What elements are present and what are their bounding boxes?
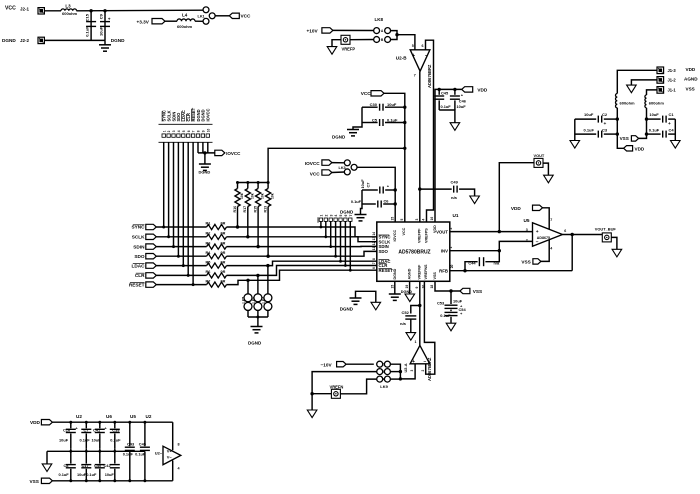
svg-text:IOVCC: IOVCC bbox=[305, 161, 320, 166]
svg-text:RFB: RFB bbox=[439, 268, 448, 273]
svg-text:600ohm: 600ohm bbox=[62, 11, 78, 16]
svg-text:C1: C1 bbox=[669, 112, 675, 117]
svg-text:20: 20 bbox=[450, 264, 454, 268]
svg-text:3: 3 bbox=[329, 215, 333, 217]
svg-text:3: 3 bbox=[410, 370, 414, 372]
svg-text:DGND: DGND bbox=[401, 290, 412, 294]
svg-text:LK1: LK1 bbox=[198, 15, 205, 19]
svg-text:L3: L3 bbox=[65, 4, 71, 9]
svg-text:SDIN: SDIN bbox=[133, 244, 145, 249]
svg-text:+10V: +10V bbox=[307, 28, 319, 33]
svg-text:10uF: 10uF bbox=[360, 179, 365, 189]
svg-text:0R: 0R bbox=[221, 270, 226, 274]
svg-text:11: 11 bbox=[372, 247, 376, 251]
svg-text:J2-1: J2-1 bbox=[20, 7, 30, 12]
svg-text:4: 4 bbox=[334, 215, 338, 217]
svg-text:C39: C39 bbox=[112, 427, 120, 432]
svg-text:15: 15 bbox=[391, 217, 395, 221]
svg-text:VOUT: VOUT bbox=[436, 229, 448, 234]
svg-text:DGND: DGND bbox=[2, 38, 16, 43]
svg-text:0.1uF: 0.1uF bbox=[584, 127, 595, 132]
svg-text:8: 8 bbox=[197, 130, 201, 132]
svg-text:C17: C17 bbox=[82, 463, 89, 468]
svg-text:VCC: VCC bbox=[5, 6, 16, 12]
svg-text:1: 1 bbox=[320, 215, 324, 217]
svg-text:U2: U2 bbox=[76, 414, 82, 419]
svg-text:R7: R7 bbox=[206, 279, 211, 283]
svg-text:C8: C8 bbox=[64, 463, 70, 468]
svg-text:10uF: 10uF bbox=[92, 437, 102, 442]
svg-text:0R: 0R bbox=[221, 260, 226, 264]
svg-text:13: 13 bbox=[372, 237, 376, 241]
svg-text:600ohm: 600ohm bbox=[620, 100, 636, 105]
svg-text:VSS: VSS bbox=[686, 86, 695, 91]
svg-text:10k: 10k bbox=[250, 193, 254, 199]
svg-text:C7: C7 bbox=[366, 183, 371, 188]
svg-text:C53: C53 bbox=[437, 300, 445, 305]
svg-text:SDO: SDO bbox=[379, 249, 389, 254]
svg-text:C30: C30 bbox=[370, 102, 378, 107]
svg-text:3: 3 bbox=[172, 130, 176, 132]
svg-text:VDD: VDD bbox=[511, 206, 522, 211]
svg-text:4: 4 bbox=[177, 130, 181, 132]
svg-text:7: 7 bbox=[414, 74, 416, 78]
svg-text:VSS: VSS bbox=[473, 289, 482, 294]
svg-text:LK9: LK9 bbox=[380, 384, 388, 389]
svg-text:0R: 0R bbox=[221, 232, 226, 236]
svg-text:3: 3 bbox=[415, 219, 419, 221]
svg-text:4: 4 bbox=[422, 219, 426, 221]
svg-text:5: 5 bbox=[339, 215, 343, 217]
svg-text:+: + bbox=[412, 53, 415, 59]
svg-text:0.1uF: 0.1uF bbox=[80, 437, 91, 442]
svg-text:5: 5 bbox=[412, 44, 414, 48]
svg-text:VCC: VCC bbox=[361, 91, 372, 96]
svg-text:8: 8 bbox=[178, 442, 180, 446]
svg-text:0.1uF: 0.1uF bbox=[123, 452, 134, 457]
svg-text:DGND: DGND bbox=[111, 38, 125, 43]
svg-text:−: − bbox=[536, 240, 539, 245]
svg-text:14: 14 bbox=[372, 232, 376, 236]
svg-text:C5: C5 bbox=[372, 117, 378, 122]
svg-text:C44: C44 bbox=[468, 261, 476, 266]
svg-text:15: 15 bbox=[391, 285, 395, 289]
svg-text:SYNC: SYNC bbox=[131, 225, 145, 230]
svg-text:U2-A: U2-A bbox=[403, 363, 408, 372]
svg-text:0.1uF: 0.1uF bbox=[110, 437, 121, 442]
svg-text:VDD: VDD bbox=[635, 146, 645, 151]
svg-text:4: 4 bbox=[550, 247, 552, 251]
svg-text:IOVCC: IOVCC bbox=[226, 151, 241, 156]
svg-text:DGND: DGND bbox=[332, 134, 346, 139]
svg-text:VCC: VCC bbox=[310, 172, 321, 177]
svg-text:0.1uF: 0.1uF bbox=[440, 313, 451, 318]
svg-text:7: 7 bbox=[349, 215, 353, 217]
svg-text:C4: C4 bbox=[669, 127, 675, 132]
svg-text:6: 6 bbox=[564, 229, 566, 233]
svg-text:10uF: 10uF bbox=[59, 437, 69, 442]
svg-text:V−: V− bbox=[167, 454, 173, 459]
svg-text:VDD: VDD bbox=[477, 88, 488, 93]
svg-text:C54: C54 bbox=[459, 307, 467, 312]
svg-text:R13: R13 bbox=[264, 206, 268, 213]
svg-text:LK5: LK5 bbox=[242, 297, 246, 304]
svg-text:LK4: LK4 bbox=[262, 297, 266, 304]
svg-text:19: 19 bbox=[405, 285, 409, 289]
svg-text:+: + bbox=[108, 18, 111, 23]
svg-text:2: 2 bbox=[449, 228, 453, 230]
svg-text:7: 7 bbox=[192, 130, 196, 132]
svg-text:U2−: U2− bbox=[155, 451, 163, 456]
svg-text:AD5780BRUZ: AD5780BRUZ bbox=[398, 250, 430, 256]
svg-text:VREFPF: VREFPF bbox=[418, 228, 422, 243]
svg-text:0R: 0R bbox=[221, 251, 226, 255]
svg-text:10uF: 10uF bbox=[387, 102, 397, 107]
svg-text:R3: R3 bbox=[206, 241, 211, 245]
svg-text:VREFP: VREFP bbox=[342, 47, 356, 52]
svg-text:VSS: VSS bbox=[521, 259, 530, 264]
svg-text:AGND: AGND bbox=[407, 268, 411, 279]
svg-text:18: 18 bbox=[430, 285, 434, 289]
svg-text:LK6: LK6 bbox=[252, 297, 256, 304]
svg-text:10uF: 10uF bbox=[453, 299, 463, 304]
svg-text:C6: C6 bbox=[384, 199, 390, 204]
svg-text:n/a: n/a bbox=[494, 260, 500, 265]
svg-text:LK8: LK8 bbox=[375, 17, 384, 22]
svg-text:C41: C41 bbox=[93, 427, 101, 432]
svg-text:DGND: DGND bbox=[340, 306, 354, 311]
svg-text:U1: U1 bbox=[453, 213, 459, 218]
svg-text:U5: U5 bbox=[130, 414, 136, 419]
svg-text:R6: R6 bbox=[206, 270, 211, 274]
svg-text:R16: R16 bbox=[233, 206, 237, 213]
svg-text:DGND: DGND bbox=[393, 268, 397, 279]
svg-text:VSS: VSS bbox=[433, 272, 437, 280]
svg-text:U6: U6 bbox=[106, 414, 112, 419]
svg-text:LK3: LK3 bbox=[339, 166, 346, 170]
svg-text:C45: C45 bbox=[441, 91, 449, 96]
svg-text:12: 12 bbox=[372, 241, 376, 245]
svg-text:0R: 0R bbox=[221, 222, 226, 226]
svg-text:2: 2 bbox=[324, 215, 328, 217]
svg-text:2: 2 bbox=[167, 130, 171, 132]
svg-text:R2: R2 bbox=[206, 232, 211, 236]
svg-text:9: 9 bbox=[202, 130, 206, 132]
svg-text:SCLK: SCLK bbox=[132, 235, 145, 240]
svg-text:1: 1 bbox=[415, 340, 417, 344]
svg-text:5: 5 bbox=[182, 130, 186, 132]
svg-text:0.1uF: 0.1uF bbox=[59, 472, 70, 477]
svg-text:2: 2 bbox=[421, 370, 425, 372]
svg-text:C40: C40 bbox=[94, 463, 101, 468]
svg-text:6: 6 bbox=[187, 130, 191, 132]
svg-text:10uF: 10uF bbox=[99, 26, 104, 36]
svg-text:VOUT: VOUT bbox=[534, 153, 545, 158]
svg-text:SDO: SDO bbox=[134, 254, 145, 259]
svg-text:6: 6 bbox=[344, 215, 348, 217]
svg-text:J1-2: J1-2 bbox=[668, 78, 677, 83]
svg-text:10k: 10k bbox=[271, 193, 275, 199]
svg-text:AGND: AGND bbox=[684, 77, 698, 82]
svg-text:C45: C45 bbox=[139, 441, 147, 446]
svg-text:VSS: VSS bbox=[620, 136, 629, 141]
svg-text:LDAC: LDAC bbox=[131, 263, 145, 268]
svg-text:VSS: VSS bbox=[30, 479, 39, 484]
svg-text:10k: 10k bbox=[261, 193, 265, 199]
svg-text:0.1uF: 0.1uF bbox=[86, 472, 97, 477]
svg-text:IOVCC: IOVCC bbox=[393, 229, 397, 241]
svg-text:0R: 0R bbox=[221, 241, 226, 245]
svg-text:INV: INV bbox=[441, 248, 448, 253]
svg-text:0.1uF: 0.1uF bbox=[649, 127, 660, 132]
svg-text:10: 10 bbox=[206, 129, 210, 133]
svg-text:10uF: 10uF bbox=[649, 112, 659, 117]
svg-text:C2: C2 bbox=[602, 112, 608, 117]
svg-text:VCC: VCC bbox=[241, 14, 252, 19]
svg-text:−: − bbox=[425, 53, 428, 59]
svg-text:V+: V+ bbox=[167, 449, 173, 454]
svg-text:RESET: RESET bbox=[129, 282, 145, 287]
svg-text:10uF: 10uF bbox=[584, 112, 594, 117]
svg-text:1: 1 bbox=[162, 130, 166, 132]
svg-text:0.1uF: 0.1uF bbox=[135, 452, 146, 457]
svg-text:C52: C52 bbox=[402, 310, 410, 315]
svg-text:0.1uF: 0.1uF bbox=[441, 104, 452, 109]
svg-text:−10V: −10V bbox=[321, 362, 333, 367]
svg-text:C49: C49 bbox=[451, 179, 459, 184]
svg-text:DGND: DGND bbox=[340, 210, 354, 215]
svg-text:IOVCC: IOVCC bbox=[206, 108, 211, 121]
svg-text:9: 9 bbox=[415, 287, 419, 289]
svg-text:C42: C42 bbox=[104, 463, 112, 468]
svg-text:CLR: CLR bbox=[135, 273, 145, 278]
svg-text:VOUT_BUF: VOUT_BUF bbox=[595, 227, 617, 232]
svg-text:VDD: VDD bbox=[686, 67, 696, 72]
svg-text:R17: R17 bbox=[243, 206, 247, 213]
svg-text:DGND: DGND bbox=[199, 170, 211, 175]
svg-text:0.1uF: 0.1uF bbox=[387, 117, 398, 122]
svg-text:10uF: 10uF bbox=[105, 472, 115, 477]
svg-text:R1: R1 bbox=[206, 222, 211, 226]
svg-text:10k: 10k bbox=[240, 193, 244, 199]
svg-text:0R: 0R bbox=[221, 279, 226, 283]
svg-text:J1-1: J1-1 bbox=[668, 88, 677, 93]
svg-text:16: 16 bbox=[430, 217, 434, 221]
svg-text:U5: U5 bbox=[524, 218, 530, 223]
svg-text:J2-2: J2-2 bbox=[20, 38, 30, 43]
svg-text:3: 3 bbox=[526, 228, 528, 232]
svg-text:DGND: DGND bbox=[248, 341, 262, 346]
svg-text:VREFNF: VREFNF bbox=[418, 264, 422, 279]
svg-text:VCC: VCC bbox=[402, 227, 406, 235]
svg-text:AD8676BRZ: AD8676BRZ bbox=[427, 357, 432, 381]
svg-text:VREFPS: VREFPS bbox=[424, 228, 428, 243]
svg-text:7: 7 bbox=[550, 218, 552, 222]
svg-text:VDD: VDD bbox=[30, 420, 41, 425]
svg-text:+: + bbox=[536, 230, 539, 235]
svg-text:R15: R15 bbox=[254, 206, 258, 213]
svg-text:C7: C7 bbox=[84, 427, 89, 432]
svg-text:6: 6 bbox=[422, 44, 424, 48]
svg-text:n/a: n/a bbox=[400, 321, 407, 326]
svg-text:10uF: 10uF bbox=[457, 104, 467, 109]
svg-text:L4: L4 bbox=[182, 13, 188, 18]
svg-text:n/a: n/a bbox=[451, 195, 458, 200]
svg-text:VREFNS: VREFNS bbox=[424, 264, 428, 279]
svg-text:+: + bbox=[668, 122, 671, 127]
svg-text:+: + bbox=[604, 122, 607, 127]
svg-text:8: 8 bbox=[372, 258, 376, 260]
svg-text:6: 6 bbox=[372, 267, 376, 269]
svg-text:600ohm: 600ohm bbox=[649, 100, 665, 105]
svg-text:U2: U2 bbox=[146, 414, 152, 419]
svg-text:1: 1 bbox=[449, 247, 453, 249]
svg-text:C16: C16 bbox=[63, 427, 71, 432]
svg-text:600ohm: 600ohm bbox=[177, 24, 193, 29]
svg-text:0.1uF: 0.1uF bbox=[351, 199, 362, 204]
svg-text:C15: C15 bbox=[85, 13, 90, 21]
svg-text:U2-B: U2-B bbox=[396, 55, 407, 60]
svg-text:C3: C3 bbox=[602, 127, 608, 132]
svg-text:R5: R5 bbox=[206, 260, 211, 264]
svg-text:VREFN: VREFN bbox=[330, 384, 344, 389]
svg-text:0.1uF: 0.1uF bbox=[85, 26, 90, 37]
svg-text:C9: C9 bbox=[99, 13, 104, 19]
svg-text:2: 2 bbox=[526, 239, 528, 243]
svg-text:AD8676BRZ: AD8676BRZ bbox=[427, 64, 432, 88]
svg-text:C43: C43 bbox=[127, 441, 135, 446]
svg-text:5: 5 bbox=[400, 219, 404, 221]
svg-text:AD8675: AD8675 bbox=[537, 236, 550, 240]
svg-text:J1-3: J1-3 bbox=[668, 68, 677, 73]
svg-text:7: 7 bbox=[372, 262, 376, 264]
svg-text:+3.3V: +3.3V bbox=[137, 19, 150, 24]
